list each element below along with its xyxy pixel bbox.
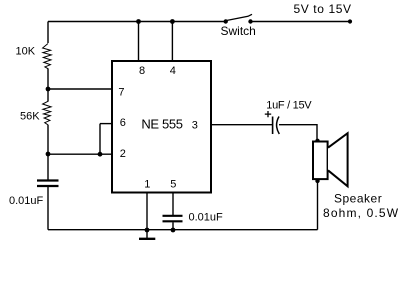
svg-text:Switch: Switch [221, 24, 256, 38]
junction node pin2 rail [46, 152, 51, 157]
wire V+ rail top left segment [48, 21, 226, 23]
svg-text:8: 8 [139, 65, 145, 77]
svg-text:5V to 15V: 5V to 15V [294, 2, 352, 16]
junction node pin7 [46, 87, 51, 92]
switch S1 left contact [224, 19, 228, 23]
wire left rail lower [47, 125, 49, 180]
wire left rail bottom [47, 187, 49, 230]
speaker LS1 body [313, 142, 328, 180]
junction node pin6 tap [98, 152, 103, 157]
op-amp U1 NE555 body [112, 61, 211, 193]
junction node speaker bottom [315, 179, 319, 183]
capacitor 0.01uF right plate bottom [163, 220, 183, 222]
switch S1 lever [227, 14, 253, 20]
svg-text:8ohm, 0.5W: 8ohm, 0.5W [323, 206, 399, 220]
capacitor 0.01uF right plate top [163, 215, 183, 217]
ground stub [146, 230, 148, 238]
svg-text:5: 5 [170, 179, 176, 191]
ground bar [139, 238, 155, 240]
wire pin6 link horizontal [100, 123, 112, 125]
wire left rail mid [47, 69, 49, 102]
svg-text:Speaker: Speaker [334, 191, 382, 205]
junction node pin8 [136, 19, 141, 24]
wire left rail top [47, 22, 49, 44]
junction node pin4 [170, 19, 175, 24]
svg-text:0.01uF: 0.01uF [9, 195, 44, 207]
wire pin 1 down [146, 193, 148, 230]
wire pin 8 to rail [138, 22, 140, 62]
svg-text:56K: 56K [20, 111, 40, 123]
capacitor 0.01uF left plate bottom [37, 185, 59, 187]
resistor 56K [43, 101, 52, 125]
svg-text:NE 555: NE 555 [141, 117, 182, 132]
wire pin6 link vertical [99, 124, 101, 155]
junction node pin5 ground [171, 228, 176, 233]
switch S1 right contact [248, 19, 252, 23]
svg-text:4: 4 [170, 65, 176, 77]
svg-text:10K: 10K [16, 46, 36, 58]
wire pin 4 to rail [171, 22, 173, 62]
junction node speaker top [315, 139, 319, 143]
svg-text:1: 1 [144, 179, 150, 191]
wire to pin 7 [48, 88, 112, 90]
svg-text:0.01uF: 0.01uF [189, 212, 224, 224]
wire V+ rail top right segment [251, 21, 351, 23]
wire pin 5 down [172, 193, 174, 216]
wire pin 3 to capacitor [211, 124, 272, 126]
node V+ terminal dot [348, 19, 352, 23]
wire to pin 2 [48, 153, 112, 155]
capacitor C out curved plate [277, 117, 280, 135]
resistor 10K [43, 44, 52, 69]
wire capacitor to speaker top [279, 125, 317, 140]
wire speaker to ground bus [317, 180, 319, 229]
junction node pin1 ground [145, 228, 150, 233]
svg-text:6: 6 [120, 117, 126, 129]
capacitor C out straight plate [272, 117, 274, 135]
svg-text:2: 2 [120, 148, 126, 160]
wire ground bus bottom [48, 229, 318, 231]
svg-text:1uF / 15V: 1uF / 15V [266, 99, 312, 111]
speaker LS1 cone [328, 133, 348, 186]
capacitor 0.01uF left plate top [37, 179, 59, 181]
svg-text:7: 7 [118, 86, 124, 98]
svg-text:3: 3 [192, 120, 198, 132]
wire cap to ground bus [172, 222, 174, 229]
capacitor C out plus sign [265, 111, 271, 117]
